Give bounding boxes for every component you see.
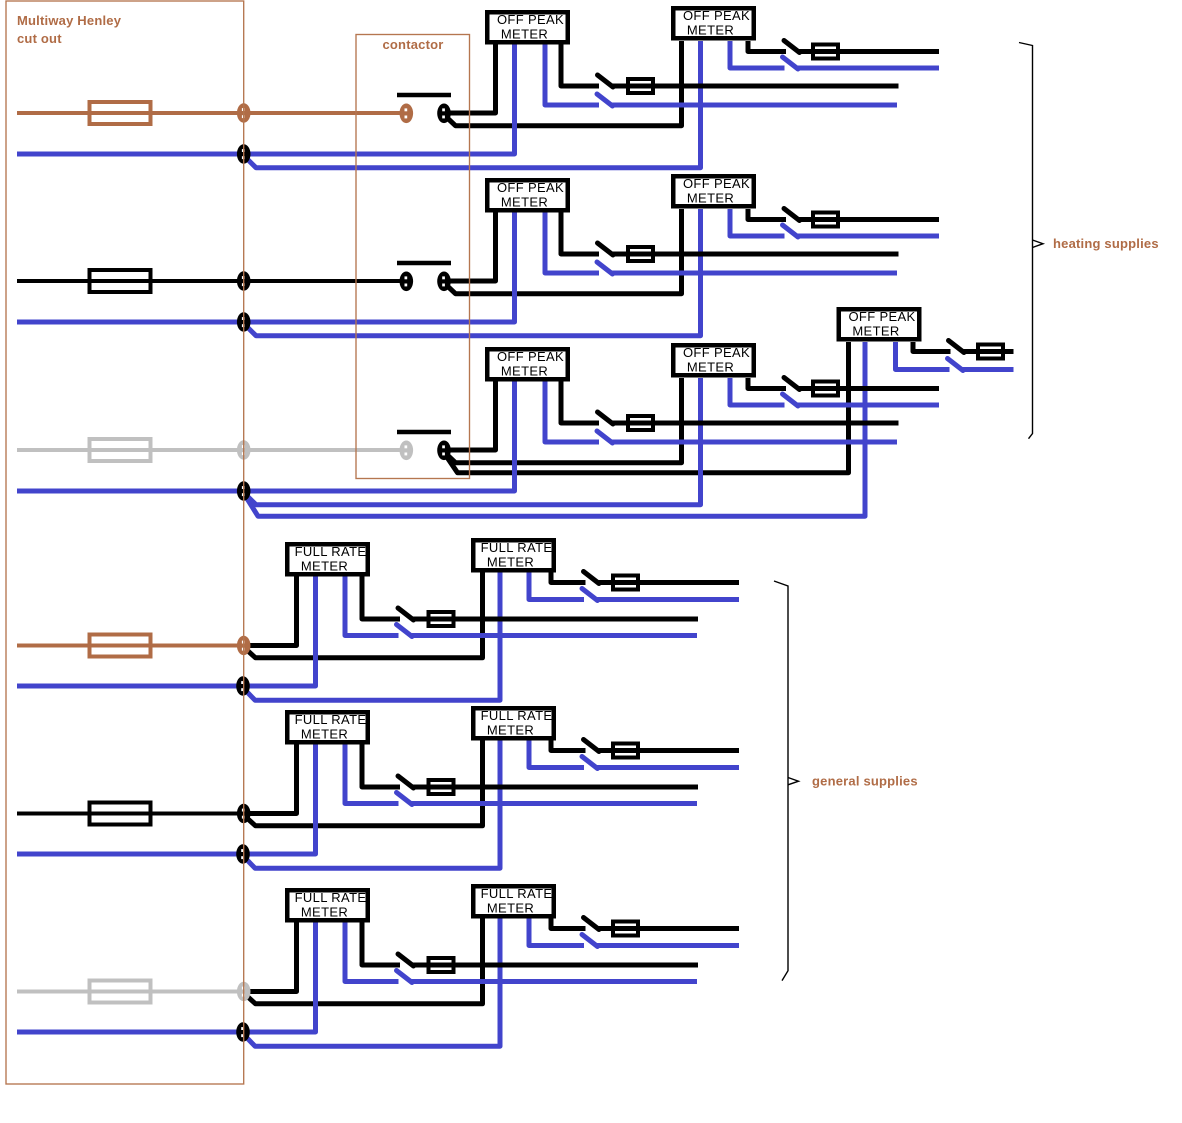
- svg-text:OFF PEAK: OFF PEAK: [497, 180, 564, 195]
- svg-text:METER: METER: [852, 324, 899, 339]
- svg-text:METER: METER: [687, 360, 734, 375]
- svg-text:OFF PEAK: OFF PEAK: [497, 12, 564, 27]
- svg-text:METER: METER: [487, 555, 534, 570]
- svg-text:FULL RATE: FULL RATE: [481, 708, 553, 723]
- svg-text:METER: METER: [687, 191, 734, 206]
- svg-text:OFF PEAK: OFF PEAK: [848, 309, 915, 324]
- svg-text:METER: METER: [301, 905, 348, 920]
- svg-text:FULL RATE: FULL RATE: [481, 886, 553, 901]
- svg-text:FULL RATE: FULL RATE: [295, 712, 367, 727]
- svg-text:FULL RATE: FULL RATE: [481, 540, 553, 555]
- svg-text:cut out: cut out: [17, 31, 62, 46]
- svg-text:heating supplies: heating supplies: [1053, 236, 1159, 251]
- svg-text:contactor: contactor: [382, 37, 443, 52]
- svg-text:METER: METER: [487, 723, 534, 738]
- svg-text:OFF PEAK: OFF PEAK: [683, 345, 750, 360]
- svg-text:OFF PEAK: OFF PEAK: [497, 349, 564, 364]
- svg-text:METER: METER: [301, 559, 348, 574]
- svg-text:Multiway Henley: Multiway Henley: [17, 13, 122, 28]
- svg-text:general supplies: general supplies: [812, 774, 918, 789]
- svg-text:OFF PEAK: OFF PEAK: [683, 8, 750, 23]
- svg-text:METER: METER: [301, 727, 348, 742]
- svg-text:METER: METER: [501, 195, 548, 210]
- svg-text:FULL RATE: FULL RATE: [295, 890, 367, 905]
- svg-text:FULL RATE: FULL RATE: [295, 544, 367, 559]
- svg-text:METER: METER: [487, 901, 534, 916]
- svg-text:METER: METER: [501, 27, 548, 42]
- svg-text:METER: METER: [501, 364, 548, 379]
- svg-text:METER: METER: [687, 23, 734, 38]
- svg-text:OFF PEAK: OFF PEAK: [683, 176, 750, 191]
